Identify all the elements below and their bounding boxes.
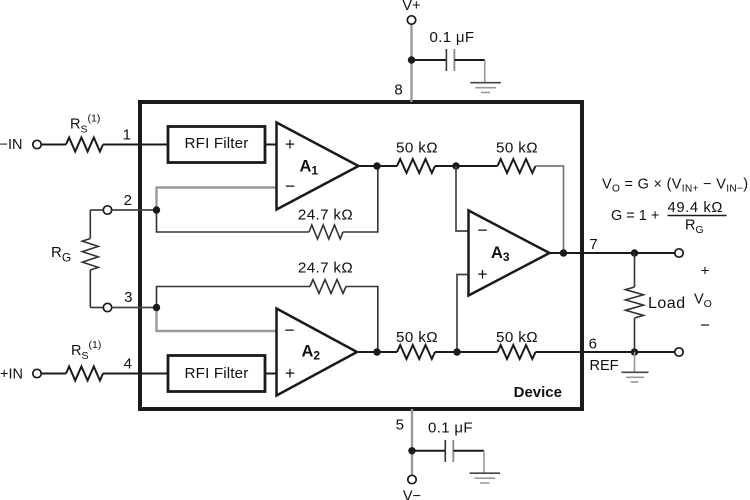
svg-text:+: + xyxy=(285,134,295,154)
svg-text:RFI Filter: RFI Filter xyxy=(185,365,249,382)
svg-text:Load: Load xyxy=(648,295,686,312)
svg-text:+: + xyxy=(477,264,487,284)
svg-text:6: 6 xyxy=(589,336,597,353)
svg-text:−IN: −IN xyxy=(0,137,22,153)
svg-text:−: − xyxy=(285,176,295,196)
svg-text:5: 5 xyxy=(396,417,404,434)
svg-text:2: 2 xyxy=(124,192,132,209)
svg-text:24.7 kΩ: 24.7 kΩ xyxy=(298,260,353,277)
svg-text:24.7 kΩ: 24.7 kΩ xyxy=(298,207,353,224)
svg-text:−: − xyxy=(700,316,710,334)
svg-text:−: − xyxy=(284,320,294,340)
svg-text:G = 1 +: G = 1 + xyxy=(611,208,659,224)
svg-text:RFI Filter: RFI Filter xyxy=(185,135,249,152)
svg-text:4: 4 xyxy=(124,356,132,373)
svg-text:7: 7 xyxy=(589,236,597,253)
svg-text:−: − xyxy=(477,220,487,240)
svg-text:REF: REF xyxy=(590,358,619,374)
svg-text:0.1 μF: 0.1 μF xyxy=(430,29,475,46)
svg-text:+: + xyxy=(285,363,295,383)
svg-text:50 kΩ: 50 kΩ xyxy=(496,329,538,346)
svg-text:50 kΩ: 50 kΩ xyxy=(396,140,438,157)
svg-text:+IN: +IN xyxy=(0,367,23,383)
svg-text:50 kΩ: 50 kΩ xyxy=(396,329,438,346)
svg-text:3: 3 xyxy=(124,289,132,306)
svg-text:Device: Device xyxy=(514,384,562,401)
svg-text:8: 8 xyxy=(394,82,402,99)
svg-text:49.4 kΩ: 49.4 kΩ xyxy=(668,200,724,216)
svg-text:V−: V− xyxy=(403,489,421,500)
svg-text:1: 1 xyxy=(123,127,131,144)
svg-text:50 kΩ: 50 kΩ xyxy=(496,140,538,157)
svg-text:V+: V+ xyxy=(402,0,420,14)
svg-text:0.1 μF: 0.1 μF xyxy=(428,420,473,437)
svg-text:+: + xyxy=(701,263,710,280)
